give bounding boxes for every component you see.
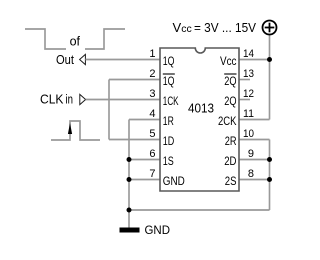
junction dot pin8 — [267, 177, 272, 182]
svg-text:7: 7 — [149, 168, 155, 180]
junction dot pin7 — [127, 177, 132, 182]
svg-text:5: 5 — [149, 128, 155, 140]
wire pin10 horizontal — [239, 139, 270, 141]
junction dot pin9 — [267, 157, 272, 162]
svg-text:2Q: 2Q — [224, 94, 236, 108]
output waveform left half — [25, 29, 66, 49]
wire pin8 horizontal — [239, 179, 270, 181]
svg-text:8: 8 — [248, 168, 254, 180]
svg-text:1R: 1R — [163, 114, 174, 128]
svg-text:cc: cc — [181, 23, 192, 35]
svg-text:9: 9 — [248, 148, 254, 160]
svg-text:1S: 1S — [163, 154, 174, 168]
wire pin2 horizontal — [109, 79, 160, 81]
svg-text:1D: 1D — [163, 134, 175, 148]
wire pin13 stub — [239, 79, 250, 81]
svg-text:13: 13 — [243, 68, 254, 80]
svg-text:= 3V ... 15V: = 3V ... 15V — [194, 20, 256, 35]
svg-text:Out: Out — [56, 53, 74, 67]
svg-text:6: 6 — [149, 148, 155, 160]
svg-text:12: 12 — [243, 88, 254, 100]
svg-text:GND: GND — [163, 174, 185, 188]
wire pin11 horizontal — [239, 119, 270, 121]
wire pin5 horizontal — [109, 139, 160, 141]
ground bar symbol — [120, 228, 140, 233]
wire pin14 horizontal — [239, 59, 270, 61]
svg-text:1Q: 1Q — [163, 74, 175, 88]
svg-text:2R: 2R — [225, 134, 237, 148]
wire pin7 horizontal — [129, 179, 160, 181]
svg-text:2S: 2S — [225, 174, 237, 188]
svg-text:2Q: 2Q — [224, 74, 236, 88]
svg-text:2: 2 — [149, 68, 155, 80]
output waveform right half — [85, 29, 125, 49]
svg-text:1: 1 — [149, 48, 155, 60]
svg-text:4013: 4013 — [188, 102, 214, 116]
wire bottom ground horizontal — [129, 209, 270, 211]
overline 1Q-bar — [163, 73, 175, 75]
svg-text:11: 11 — [243, 108, 254, 120]
svg-text:3: 3 — [149, 88, 155, 100]
wire pin12 stub — [239, 99, 250, 101]
svg-text:Vcc: Vcc — [220, 54, 237, 68]
wire left ground rail vertical — [128, 120, 130, 228]
wire right ground rail vertical — [269, 140, 271, 211]
svg-text:4: 4 — [149, 108, 155, 120]
svg-text:V: V — [173, 20, 182, 35]
svg-text:GND: GND — [145, 223, 171, 237]
overline 2Q-bar — [224, 73, 236, 75]
svg-text:CLK: CLK — [40, 93, 64, 107]
wire Vcc rail vertical — [269, 35, 271, 120]
op IC U1 4013 body with notch — [160, 48, 239, 191]
clock input waveform — [51, 121, 100, 140]
wire pin6 horizontal — [129, 159, 160, 161]
junction dot pin6 — [127, 157, 132, 162]
svg-text:10: 10 — [243, 128, 254, 140]
junction dot pin14 Vcc — [267, 57, 272, 62]
svg-text:2D: 2D — [224, 154, 237, 168]
arrow CLK in (open triangle pointing right) — [80, 94, 86, 104]
wire pin1 to Out arrow — [85, 59, 160, 61]
Vcc terminal circle with plus — [263, 21, 277, 35]
arrow Out (open triangle pointing left) — [80, 54, 86, 64]
junction dot bottom ground — [127, 208, 132, 213]
rising edge arrowhead — [68, 123, 72, 134]
svg-text:1CK: 1CK — [163, 94, 179, 108]
svg-text:14: 14 — [243, 48, 254, 60]
svg-text:in: in — [66, 93, 74, 107]
wire feedback vertical 1Q- to 1D — [108, 80, 110, 140]
wire CLK in to pin3 — [86, 99, 160, 101]
wire pin4 horizontal — [129, 119, 160, 121]
wire pin9 horizontal — [239, 159, 270, 161]
svg-text:1Q: 1Q — [163, 54, 175, 68]
svg-text:of: of — [70, 35, 81, 49]
svg-text:2CK: 2CK — [218, 114, 237, 128]
